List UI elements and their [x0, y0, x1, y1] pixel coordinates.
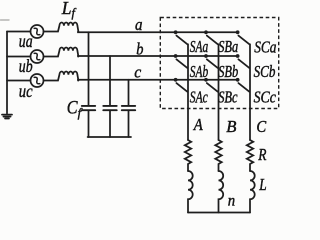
switch SAa blade [176, 36, 187, 45]
svg-text:ub: ub [19, 56, 33, 76]
inductor (phase A) [188, 171, 193, 213]
resistor (phase B) [215, 140, 221, 171]
switch SCc blade [238, 83, 249, 92]
node: tap b-A [174, 54, 178, 58]
wire: line c [78, 79, 238, 82]
svg-text:SAb: SAb [190, 62, 208, 81]
node: tap a-C [236, 30, 240, 34]
svg-text:SAa: SAa [190, 37, 208, 56]
node: tap c-A [174, 78, 178, 82]
svg-text:L: L [61, 0, 72, 18]
switch SBb blade [207, 59, 218, 68]
node: tap b-B [204, 54, 208, 58]
svg-text:B: B [226, 117, 236, 136]
svg-text:ua: ua [19, 31, 33, 51]
wire: output column C [249, 44, 251, 140]
ac source uc [31, 74, 44, 87]
wire: line a [78, 31, 238, 34]
wire: left neutral bus [6, 32, 8, 114]
svg-text:C: C [256, 117, 267, 136]
svg-text:SBb: SBb [218, 62, 238, 81]
svg-text:R: R [257, 145, 266, 164]
svg-text:SBa: SBa [218, 37, 238, 56]
wire: stub to source ub [7, 56, 31, 58]
svg-text:L: L [258, 175, 266, 194]
wire: stub to source ua [7, 31, 31, 33]
inductor Lf (phase a) [44, 22, 79, 31]
wire: output column B [218, 44, 220, 140]
svg-text:n: n [228, 192, 235, 209]
inductor Lf (phase c) [44, 71, 79, 80]
svg-text:SBc: SBc [218, 88, 238, 107]
wire: capacitor neutral bus [88, 136, 131, 138]
scan artifact (decorative) [1, 19, 10, 21]
dashed enclosure (switch matrix) [160, 18, 278, 109]
switch SCb blade [238, 59, 249, 68]
svg-text:c: c [134, 62, 141, 81]
wire: load neutral bus n [188, 212, 250, 214]
resistor R (phase C) [247, 140, 253, 171]
node: tap b-C [236, 54, 240, 58]
node: tap c-C [236, 78, 240, 82]
inductor (phase B) [219, 171, 224, 213]
wire: line b [78, 55, 238, 58]
switch SCa blade [238, 36, 249, 45]
ac source ub [31, 50, 44, 63]
node: tap c-B [204, 78, 208, 82]
switch SBa blade [207, 36, 218, 45]
switch SAb blade [176, 59, 187, 68]
svg-text:A: A [193, 115, 204, 134]
ground [2, 115, 12, 119]
svg-text:SCc: SCc [254, 88, 277, 107]
capacitor Cf1 [82, 32, 95, 137]
svg-text:a: a [135, 15, 143, 34]
capacitor Cf2 [103, 56, 116, 137]
svg-text:SAc: SAc [190, 88, 208, 107]
svg-text:C: C [67, 99, 78, 119]
ac source ua [31, 25, 44, 38]
node: tap a-B [204, 30, 208, 34]
wire: stub to source uc [7, 80, 31, 82]
wire: output column A [187, 44, 189, 140]
node: tap a-A [174, 30, 178, 34]
resistor (phase A) [185, 140, 191, 171]
svg-text:SCa: SCa [254, 37, 276, 56]
capacitor Cf3 [122, 80, 135, 137]
inductor Lf (phase b) [44, 47, 79, 56]
switch SAc blade [176, 83, 187, 92]
svg-text:uc: uc [19, 81, 33, 101]
inductor L (phase C) [250, 171, 255, 213]
switch SBc blade [207, 83, 218, 92]
svg-text:SCb: SCb [254, 62, 276, 81]
svg-text:b: b [136, 40, 143, 59]
